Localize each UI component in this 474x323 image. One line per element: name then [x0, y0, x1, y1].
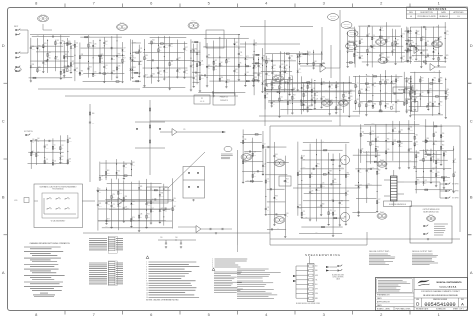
svg-text:P2: P2 — [201, 98, 203, 100]
svg-text:2: 2 — [212, 261, 213, 263]
svg-text:DATE: DATE — [441, 11, 446, 14]
svg-text:R55: R55 — [400, 143, 403, 145]
svg-text:220K: 220K — [432, 167, 435, 169]
svg-text:C9: C9 — [254, 65, 256, 67]
svg-text:R50: R50 — [434, 49, 437, 51]
svg-text:C70: C70 — [432, 169, 435, 171]
svg-text:R2: R2 — [412, 85, 414, 87]
svg-text:SHEET 1 OF 1: SHEET 1 OF 1 — [453, 308, 464, 310]
svg-text:R85: R85 — [81, 71, 84, 73]
svg-text:10UF: 10UF — [107, 173, 110, 175]
svg-text:1K5: 1K5 — [99, 191, 102, 193]
svg-text:1K5: 1K5 — [356, 102, 359, 104]
svg-text:1K5: 1K5 — [105, 44, 108, 46]
svg-text:C61: C61 — [235, 42, 238, 44]
svg-text:C46: C46 — [175, 237, 178, 239]
svg-text:C11: C11 — [140, 48, 143, 50]
svg-text:8: 8 — [146, 278, 147, 280]
svg-text:R66: R66 — [355, 41, 358, 43]
svg-text:.047: .047 — [149, 42, 152, 44]
svg-text:C61: C61 — [285, 65, 288, 67]
svg-text:.047: .047 — [122, 188, 125, 190]
svg-text:22K: 22K — [118, 68, 120, 70]
svg-text:C28: C28 — [178, 57, 181, 59]
svg-text:22K: 22K — [140, 216, 142, 218]
svg-text:.022: .022 — [344, 95, 347, 97]
svg-text:R15: R15 — [263, 81, 266, 83]
svg-text:1K: 1K — [434, 71, 436, 73]
svg-text:470: 470 — [417, 156, 419, 158]
svg-text:10UF: 10UF — [367, 105, 370, 107]
svg-text:10UF: 10UF — [445, 179, 448, 181]
svg-text:47K: 47K — [273, 68, 275, 70]
svg-text:C23: C23 — [437, 172, 440, 174]
svg-text:.022: .022 — [254, 154, 257, 156]
svg-text:22K: 22K — [356, 86, 358, 88]
svg-text:C45: C45 — [429, 102, 432, 104]
svg-text:100K: 100K — [371, 144, 374, 146]
svg-text:C49: C49 — [32, 139, 35, 141]
svg-text:R54: R54 — [131, 56, 134, 58]
svg-text:R76: R76 — [99, 203, 102, 205]
svg-text:YEL: YEL — [315, 279, 318, 281]
svg-text:DATE: DATE — [377, 304, 382, 307]
svg-text:PREPARED BY: PREPARED BY — [377, 294, 390, 297]
svg-text:22K: 22K — [112, 197, 114, 199]
svg-text:.047: .047 — [305, 90, 308, 92]
svg-text:10: 10 — [146, 283, 148, 285]
svg-text:C17: C17 — [165, 69, 168, 71]
svg-text:R88: R88 — [432, 156, 435, 158]
svg-text:C75: C75 — [178, 69, 181, 71]
svg-text:68K: 68K — [284, 88, 286, 90]
svg-text:22K: 22K — [362, 134, 364, 136]
svg-text:C: C — [470, 119, 473, 124]
svg-text:100K: 100K — [107, 204, 110, 206]
svg-text:220K: 220K — [303, 167, 306, 169]
svg-text:10UF: 10UF — [416, 144, 419, 146]
svg-text:470: 470 — [356, 49, 358, 51]
svg-text:R33: R33 — [409, 47, 412, 49]
svg-text:22K: 22K — [407, 82, 409, 84]
svg-text:10UF: 10UF — [371, 134, 374, 136]
svg-text:.022: .022 — [289, 103, 292, 105]
svg-text:V1B: V1B — [432, 218, 434, 220]
svg-text:C42: C42 — [356, 99, 359, 101]
svg-text:7: 7 — [146, 276, 147, 278]
svg-text:C84: C84 — [304, 102, 307, 104]
svg-text:100K: 100K — [329, 213, 332, 215]
svg-text:68K: 68K — [433, 105, 435, 107]
svg-text:C90: C90 — [341, 164, 344, 166]
svg-text:C77: C77 — [299, 69, 302, 71]
svg-text:EXT SPKR: EXT SPKR — [452, 184, 458, 186]
svg-text:22K: 22K — [105, 68, 107, 70]
svg-text:R20: R20 — [322, 203, 325, 205]
svg-text:C31: C31 — [61, 145, 64, 147]
svg-text:C29: C29 — [192, 64, 195, 66]
svg-text:68K: 68K — [405, 87, 407, 89]
svg-text:R5: R5 — [416, 98, 418, 100]
svg-text:1K: 1K — [322, 141, 324, 143]
svg-text:R72: R72 — [76, 68, 79, 70]
svg-text:.047: .047 — [348, 26, 351, 28]
svg-text:22K: 22K — [374, 85, 376, 87]
svg-text:22K: 22K — [424, 183, 426, 185]
svg-text:C: C — [2, 119, 5, 124]
svg-text:R44: R44 — [417, 45, 420, 47]
svg-text:220K: 220K — [331, 199, 334, 201]
svg-text:R59: R59 — [289, 81, 292, 83]
svg-text:R90: R90 — [89, 42, 92, 44]
svg-text:C6: C6 — [407, 79, 409, 81]
svg-text:C31: C31 — [266, 86, 269, 88]
svg-text:68K: 68K — [305, 216, 307, 218]
svg-text:470: 470 — [435, 144, 437, 146]
svg-text:C71: C71 — [165, 44, 168, 46]
svg-text:1K: 1K — [156, 66, 158, 68]
svg-text:C32: C32 — [400, 130, 403, 132]
svg-text:DEVILLE OUTPUT TEST:: DEVILLE OUTPUT TEST: — [412, 251, 433, 253]
svg-text:47K: 47K — [341, 203, 343, 205]
svg-text:470: 470 — [170, 64, 172, 66]
svg-text:22K: 22K — [299, 174, 301, 176]
svg-text:C76: C76 — [46, 159, 49, 161]
svg-text:47K: 47K — [264, 146, 266, 148]
svg-text:V1B: V1B — [281, 220, 283, 222]
svg-text:100K: 100K — [303, 214, 306, 216]
svg-text:R97: R97 — [101, 58, 104, 60]
svg-text:100K: 100K — [434, 44, 437, 46]
svg-text:R22: R22 — [416, 135, 419, 137]
svg-text:R60: R60 — [374, 104, 377, 106]
svg-text:2: 2 — [146, 264, 147, 266]
svg-text:1K5: 1K5 — [411, 45, 414, 47]
svg-text:68K: 68K — [37, 35, 39, 37]
svg-text:470: 470 — [392, 84, 394, 86]
svg-text:R85: R85 — [440, 77, 443, 79]
svg-text:.022: .022 — [101, 61, 104, 63]
svg-text:22K: 22K — [61, 159, 63, 161]
svg-text:B: B — [2, 194, 5, 199]
svg-text:BLK: BLK — [315, 266, 318, 268]
svg-text:100K: 100K — [145, 77, 148, 79]
svg-text:47K: 47K — [350, 93, 352, 95]
svg-text:220K: 220K — [107, 72, 110, 74]
svg-text:R81: R81 — [235, 69, 238, 71]
svg-text:1K5: 1K5 — [235, 45, 238, 47]
svg-text:100K: 100K — [165, 71, 168, 73]
svg-text:R2: R2 — [362, 148, 364, 150]
svg-text:22K: 22K — [264, 166, 266, 168]
svg-text:R80: R80 — [113, 71, 116, 73]
svg-text:C21: C21 — [329, 210, 332, 212]
svg-text:10UF: 10UF — [112, 207, 115, 209]
svg-text:C78: C78 — [311, 190, 314, 192]
svg-text:C33: C33 — [424, 180, 427, 182]
svg-text:220K: 220K — [133, 41, 136, 43]
svg-text:470: 470 — [359, 187, 361, 189]
svg-text:R1: R1 — [280, 84, 282, 86]
svg-text:.047: .047 — [193, 81, 196, 83]
svg-text:10UF: 10UF — [446, 34, 449, 36]
svg-text:22K: 22K — [37, 155, 39, 157]
svg-text:470: 470 — [308, 55, 310, 57]
svg-text:1K: 1K — [47, 59, 49, 61]
svg-text:EXT SPKR: EXT SPKR — [452, 198, 458, 200]
svg-text:APPROVED BY: APPROVED BY — [377, 301, 391, 304]
svg-text:.047: .047 — [365, 82, 368, 84]
svg-text:470: 470 — [152, 76, 154, 78]
svg-text:10UF: 10UF — [118, 56, 121, 58]
svg-text:47K: 47K — [65, 71, 67, 73]
svg-text:10UF: 10UF — [273, 85, 276, 87]
svg-text:68K: 68K — [436, 25, 438, 27]
svg-text:.047: .047 — [425, 153, 428, 155]
svg-text:C66: C66 — [215, 66, 218, 68]
svg-text:1K5: 1K5 — [373, 38, 376, 40]
svg-text:1K5: 1K5 — [44, 63, 47, 65]
svg-text:.047: .047 — [347, 49, 350, 51]
svg-text:R87: R87 — [417, 31, 420, 33]
svg-text:R17: R17 — [123, 58, 126, 60]
svg-text:+16 -16: +16 -16 — [200, 101, 205, 103]
svg-text:.022: .022 — [281, 67, 284, 69]
svg-text:R8: R8 — [311, 173, 313, 175]
svg-text:470: 470 — [178, 72, 180, 74]
svg-text:3: 3 — [146, 266, 147, 268]
svg-text:14: 14 — [146, 292, 148, 294]
svg-text:470: 470 — [267, 210, 269, 212]
svg-text:68K: 68K — [422, 176, 424, 178]
svg-text:R75: R75 — [360, 102, 363, 104]
svg-text:C23: C23 — [316, 99, 319, 101]
svg-text:R84: R84 — [434, 77, 437, 79]
svg-text:V1B: V1B — [248, 157, 250, 159]
svg-text:R61: R61 — [377, 147, 380, 149]
svg-text:R52: R52 — [89, 66, 92, 68]
svg-text:R19: R19 — [337, 105, 340, 107]
svg-text:22K: 22K — [446, 58, 448, 60]
svg-text:10UF: 10UF — [381, 30, 384, 32]
svg-text:1: 1 — [212, 259, 213, 261]
svg-text:10UF: 10UF — [322, 84, 325, 86]
svg-text:100K: 100K — [447, 92, 450, 94]
svg-text:R70: R70 — [367, 87, 370, 89]
svg-text:10UF: 10UF — [227, 61, 230, 63]
svg-text:V1B: V1B — [123, 27, 125, 29]
svg-text:R14: R14 — [411, 92, 414, 94]
svg-text:R61: R61 — [48, 58, 51, 60]
svg-text:WHT: WHT — [315, 289, 318, 291]
svg-text:.047: .047 — [409, 160, 412, 162]
svg-text:100K: 100K — [201, 78, 204, 80]
svg-text:C53: C53 — [361, 55, 364, 57]
svg-text:SCHEM-CHK: SCHEM-CHK — [436, 308, 447, 310]
svg-text:P/N 0994859000: P/N 0994859000 — [52, 189, 63, 191]
svg-text:V1B: V1B — [195, 25, 197, 27]
svg-text:R65: R65 — [147, 214, 150, 216]
svg-text:10UF: 10UF — [422, 39, 425, 41]
svg-text:C41: C41 — [280, 96, 283, 98]
svg-text:R50: R50 — [61, 156, 64, 158]
svg-text:R28: R28 — [308, 105, 311, 107]
svg-text:68K: 68K — [366, 153, 368, 155]
svg-text:1K: 1K — [220, 64, 222, 66]
svg-text:R59: R59 — [44, 43, 47, 45]
svg-text:C79: C79 — [371, 131, 374, 133]
svg-text:C98: C98 — [170, 61, 173, 63]
svg-text:47K: 47K — [454, 162, 456, 164]
svg-text:220K: 220K — [317, 206, 320, 208]
svg-text:22K: 22K — [140, 64, 142, 66]
svg-text:D: D — [470, 43, 473, 48]
svg-text:22K: 22K — [246, 59, 248, 61]
svg-text:R85: R85 — [65, 68, 68, 70]
svg-text:BRN: BRN — [315, 298, 318, 300]
svg-text:R18: R18 — [434, 41, 437, 43]
svg-text:R E V I S I O N S: R E V I S I O N S — [428, 8, 447, 11]
svg-text:220K: 220K — [134, 51, 137, 53]
svg-text:68K: 68K — [38, 66, 40, 68]
svg-text:220K: 220K — [385, 92, 388, 94]
svg-text:47K: 47K — [275, 198, 277, 200]
svg-text:C75: C75 — [402, 34, 405, 36]
svg-text:C31: C31 — [227, 58, 230, 60]
svg-text:R86: R86 — [145, 55, 148, 57]
svg-text:.022: .022 — [192, 67, 195, 69]
svg-text:R61: R61 — [132, 162, 135, 164]
svg-text:C23: C23 — [113, 56, 116, 58]
svg-text:.022: .022 — [165, 47, 168, 49]
svg-text:C91: C91 — [429, 89, 432, 91]
svg-text:220K: 220K — [388, 132, 391, 134]
svg-text:C5: C5 — [54, 145, 56, 147]
svg-text:V1B: V1B — [279, 78, 281, 80]
svg-text:R60: R60 — [92, 113, 95, 115]
svg-text:C76: C76 — [267, 207, 270, 209]
svg-text:R73: R73 — [392, 81, 395, 83]
svg-text:C24: C24 — [387, 38, 390, 40]
svg-text:10UF: 10UF — [159, 74, 162, 76]
svg-text:470: 470 — [132, 204, 134, 206]
svg-text:10UF: 10UF — [417, 34, 420, 36]
svg-text:R92: R92 — [394, 128, 397, 130]
svg-text:C65: C65 — [316, 92, 319, 94]
svg-text:R1: R1 — [349, 41, 351, 43]
svg-text:C47: C47 — [303, 156, 306, 158]
svg-text:470: 470 — [273, 104, 275, 106]
svg-text:R71: R71 — [208, 54, 211, 56]
svg-text:1K5: 1K5 — [123, 60, 126, 62]
svg-text:FOR SERVICE DIAGRAM COMMENTS C: FOR SERVICE DIAGRAM COMMENTS CONTACT — [421, 290, 460, 293]
svg-text:C4: C4 — [334, 211, 336, 213]
svg-text:C76: C76 — [411, 55, 414, 57]
svg-text:.022: .022 — [281, 74, 284, 76]
svg-text:C74: C74 — [46, 144, 49, 146]
svg-text:R30: R30 — [118, 54, 121, 56]
svg-text:100K: 100K — [201, 63, 204, 65]
svg-text:47K: 47K — [347, 176, 349, 178]
svg-text:R30: R30 — [396, 43, 399, 45]
svg-text:220K: 220K — [254, 71, 257, 73]
svg-text:C67: C67 — [396, 40, 399, 42]
svg-text:4: 4 — [146, 269, 147, 271]
svg-text:C86: C86 — [442, 133, 445, 135]
svg-text:.022: .022 — [81, 73, 84, 75]
svg-text:.047: .047 — [251, 141, 254, 143]
svg-text:C33: C33 — [417, 153, 420, 155]
svg-text:R45: R45 — [275, 154, 278, 156]
svg-text:CHANNEL/REVERB SWITCHING OPE: CHANNEL/REVERB SWITCHING OPERATION — [29, 242, 70, 245]
svg-text:R81: R81 — [408, 41, 411, 43]
svg-text:1K: 1K — [421, 158, 423, 160]
svg-text:10UF: 10UF — [417, 183, 420, 185]
svg-text:22K: 22K — [145, 58, 147, 60]
svg-text:R93: R93 — [350, 96, 353, 98]
svg-text:C28: C28 — [198, 62, 201, 64]
svg-text:R29: R29 — [421, 77, 424, 79]
svg-text:C94: C94 — [330, 84, 333, 86]
svg-text:BLUES DEVILLE 410: BLUES DEVILLE 410 — [423, 211, 438, 213]
svg-text:BOARD L.LEVEL: BOARD L.LEVEL — [377, 307, 390, 310]
svg-text:470: 470 — [445, 154, 447, 156]
svg-text:220K: 220K — [126, 208, 129, 210]
svg-text:C86: C86 — [266, 94, 269, 96]
svg-text:R18: R18 — [367, 102, 370, 104]
svg-text:R2: R2 — [254, 173, 256, 175]
svg-text:1K5: 1K5 — [125, 167, 128, 169]
svg-text:10UF: 10UF — [394, 131, 397, 133]
svg-text:47K: 47K — [392, 107, 394, 109]
svg-text:10UF: 10UF — [416, 93, 419, 95]
svg-text:R70: R70 — [117, 171, 120, 173]
svg-text:R57: R57 — [159, 71, 162, 73]
svg-text:C52: C52 — [281, 64, 284, 66]
svg-text:.047: .047 — [325, 149, 328, 151]
svg-text:68K: 68K — [418, 60, 420, 62]
svg-text:47K: 47K — [329, 173, 331, 175]
svg-text:INPUT: INPUT — [14, 26, 18, 28]
svg-text:1K5: 1K5 — [275, 157, 278, 159]
svg-text:.022: .022 — [198, 54, 201, 56]
svg-text:470: 470 — [68, 44, 70, 46]
svg-text:.022: .022 — [215, 68, 218, 70]
svg-text:C94: C94 — [267, 59, 270, 61]
svg-text:100K: 100K — [99, 206, 102, 208]
svg-text:.047: .047 — [192, 71, 195, 73]
svg-text:C48: C48 — [402, 56, 405, 58]
svg-text:R54: R54 — [442, 145, 445, 147]
svg-text:1K: 1K — [347, 61, 349, 63]
svg-text:C86: C86 — [140, 213, 143, 215]
svg-text:1K: 1K — [246, 160, 248, 162]
svg-text:C98: C98 — [244, 139, 247, 141]
svg-text:100K: 100K — [341, 167, 344, 169]
svg-text:R13: R13 — [133, 58, 136, 60]
svg-text:.022: .022 — [69, 161, 72, 163]
svg-text:.047: .047 — [406, 77, 409, 79]
svg-text:22K: 22K — [259, 66, 261, 68]
svg-text:10UF: 10UF — [32, 49, 35, 51]
svg-text:C36: C36 — [421, 92, 424, 94]
svg-text:.047: .047 — [65, 42, 68, 44]
svg-text:470: 470 — [119, 206, 121, 208]
svg-text:R69: R69 — [69, 138, 72, 140]
svg-text:47K: 47K — [133, 70, 135, 72]
svg-text:12 TYP: 12 TYP — [331, 18, 335, 20]
svg-text:C48: C48 — [264, 163, 267, 165]
